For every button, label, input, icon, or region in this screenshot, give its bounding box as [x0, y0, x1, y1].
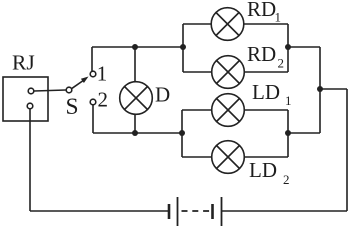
wire RD right vertical [287, 24, 289, 72]
switch S blade arrow [72, 77, 89, 89]
switch contact 1 [90, 71, 96, 77]
label RD2 [247, 42, 284, 71]
wire RD2 branch left [183, 71, 212, 73]
lamp RD1 [211, 8, 244, 41]
battery cell 2 positive plate [221, 197, 223, 226]
label LD2 [249, 158, 290, 187]
switch S pivot [66, 87, 72, 93]
node LD left (junction) [179, 130, 185, 136]
lamp RD2 [212, 56, 245, 89]
wire LD2 branch right [244, 156, 288, 158]
svg-text:1: 1 [285, 93, 292, 108]
wire bottom right run [222, 210, 348, 212]
node LD right (junction) [285, 130, 291, 136]
svg-text:2: 2 [278, 56, 285, 71]
wire LD node to right bus [288, 132, 320, 134]
wire D branch lower [134, 114, 136, 133]
lamp LD1 [212, 94, 245, 127]
wire LD1 branch left [182, 109, 212, 111]
svg-text:S: S [66, 94, 79, 120]
battery dashed link [182, 210, 211, 212]
wire LD1 branch right [244, 109, 288, 111]
svg-text:1: 1 [275, 10, 282, 25]
junction bottom rail / D branch [132, 130, 138, 136]
battery cell 1 negative plate [168, 204, 171, 219]
svg-text:1: 1 [97, 62, 108, 86]
svg-text:D: D [155, 83, 170, 107]
RJ upper terminal [28, 88, 34, 94]
wire bus to right edge [320, 88, 347, 90]
wire RJ lower terminal down [29, 109, 31, 211]
wire bottom rail [93, 132, 182, 134]
component RJ (fuse box) [3, 77, 48, 121]
battery cell 1 positive plate [177, 197, 179, 226]
wire LD left vertical [181, 110, 183, 157]
wire bottom left run [30, 210, 168, 212]
wire D branch upper [134, 47, 136, 82]
switch contact 2 [90, 99, 96, 105]
node right bus (junction) [317, 86, 323, 92]
battery cell 2 negative plate [211, 204, 214, 219]
wire RD1 branch left [183, 23, 212, 25]
svg-text:LD: LD [252, 80, 280, 104]
svg-text:RD: RD [247, 42, 276, 66]
RJ lower terminal [27, 103, 33, 109]
wire right bus vertical [319, 47, 321, 133]
svg-text:2: 2 [98, 88, 109, 112]
lamp LD2 [212, 141, 245, 174]
node RD right (junction) [285, 44, 291, 50]
svg-text:2: 2 [283, 172, 290, 187]
svg-text:RJ: RJ [12, 51, 35, 75]
wire contact 1 up to top rail [91, 47, 93, 71]
junction top rail / D branch [132, 44, 138, 50]
wire contact 2 down to bottom rail [92, 105, 94, 133]
node RD left (junction) [180, 44, 186, 50]
wire LD2 branch left [182, 156, 212, 158]
wire RD1 branch right [244, 23, 289, 25]
wire LD right vertical [287, 110, 289, 157]
wire RD node to right bus [288, 46, 320, 48]
label RD1 [247, 0, 281, 25]
wire right edge vertical [346, 89, 348, 211]
wire RJ upper terminal to switch pivot [34, 90, 66, 91]
svg-text:LD: LD [249, 158, 277, 182]
label LD1 [252, 80, 292, 108]
svg-text:RD: RD [247, 0, 276, 21]
wire RD left vertical [182, 24, 184, 72]
wire RD2 branch right [244, 71, 288, 73]
lamp D [120, 82, 153, 115]
wire top rail [92, 46, 183, 48]
